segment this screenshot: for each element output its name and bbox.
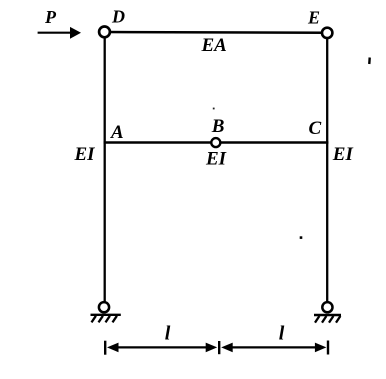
svg-text:D: D	[111, 7, 125, 27]
svg-text:l: l	[165, 323, 171, 345]
hinge circle E	[322, 28, 332, 38]
left support hatching	[92, 316, 117, 323]
wire: top beam D-E (bar EA)	[105, 31, 328, 34]
svg-text:B: B	[211, 116, 225, 137]
dimension line left span with arrows	[107, 343, 217, 353]
svg-text:P: P	[44, 7, 57, 27]
svg-text:EI: EI	[74, 144, 96, 165]
hinge circle D	[99, 27, 110, 38]
svg-text:E: E	[307, 8, 320, 28]
right pin support circle	[322, 302, 332, 312]
wire: left column D-A-support	[104, 32, 106, 307]
stray dot middle right	[300, 236, 303, 239]
svg-text:A: A	[110, 122, 124, 143]
wire: right column E-C-support	[326, 33, 328, 307]
stray dot above B	[213, 108, 215, 110]
wire: middle beam A-B-C	[104, 141, 329, 144]
right support ground line	[314, 314, 341, 316]
svg-text:C: C	[309, 118, 322, 139]
stray mark top right	[368, 57, 371, 64]
hinge circle B	[211, 138, 220, 147]
force arrow P	[38, 27, 81, 39]
svg-text:EI: EI	[332, 144, 354, 165]
dimension line right span with arrows	[221, 343, 326, 353]
svg-text:l: l	[279, 323, 285, 345]
left pin support circle	[99, 302, 109, 312]
svg-text:EI: EI	[205, 149, 227, 170]
right support hatching	[315, 316, 340, 323]
svg-text:EA: EA	[201, 35, 227, 56]
left support ground line	[91, 314, 121, 316]
dimension tick left	[104, 341, 106, 355]
dimension tick middle	[218, 341, 220, 354]
dimension tick right	[327, 341, 329, 355]
